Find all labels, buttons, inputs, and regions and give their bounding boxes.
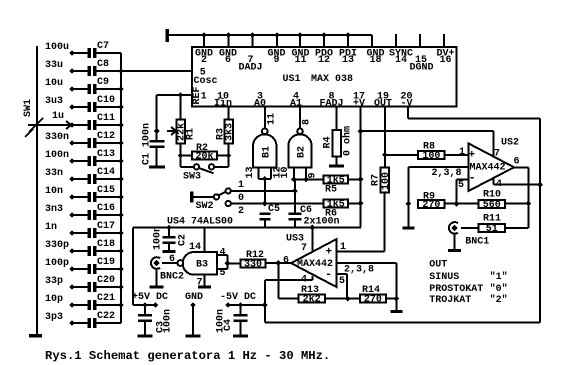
- svg-text:10u: 10u: [45, 78, 63, 89]
- svg-text:33p: 33p: [45, 276, 63, 287]
- svg-text:SW2: SW2: [196, 201, 214, 212]
- svg-text:2,3,8: 2,3,8: [432, 168, 462, 179]
- svg-text:330p: 330p: [45, 240, 69, 251]
- svg-text:3u3: 3u3: [45, 96, 63, 107]
- svg-text:FADJ: FADJ: [319, 99, 343, 110]
- svg-text:16: 16: [439, 55, 451, 66]
- svg-text:1: 1: [201, 92, 207, 103]
- svg-text:2,3,8: 2,3,8: [344, 265, 374, 276]
- svg-text:330n: 330n: [45, 132, 69, 143]
- svg-text:B3: B3: [196, 260, 208, 271]
- svg-text:7: 7: [197, 278, 203, 289]
- svg-text:10: 10: [280, 166, 291, 178]
- svg-text:R12: R12: [246, 250, 264, 261]
- svg-text:3n3: 3n3: [45, 204, 63, 215]
- svg-text:Cosc: Cosc: [194, 76, 218, 87]
- svg-text:51: 51: [486, 224, 498, 235]
- svg-text:B2: B2: [297, 146, 308, 158]
- svg-text:10p: 10p: [45, 294, 63, 305]
- svg-text:"0": "0": [490, 283, 508, 295]
- svg-text:C6: C6: [300, 205, 312, 216]
- svg-text:C21: C21: [97, 293, 115, 304]
- svg-text:5: 5: [220, 268, 226, 279]
- svg-text:6: 6: [283, 256, 289, 267]
- svg-text:US2: US2: [501, 138, 519, 149]
- svg-text:14: 14: [395, 55, 407, 66]
- svg-text:R7: R7: [371, 174, 382, 186]
- svg-text:PROSTOKAT: PROSTOKAT: [429, 284, 483, 295]
- svg-text:BNC2: BNC2: [160, 272, 184, 283]
- svg-text:R13: R13: [301, 285, 319, 296]
- svg-text:9: 9: [273, 55, 279, 66]
- svg-text:13: 13: [342, 55, 354, 66]
- svg-text:C22: C22: [97, 311, 115, 322]
- svg-text:5: 5: [458, 180, 464, 191]
- svg-text:OUT: OUT: [374, 99, 392, 110]
- svg-text:+: +: [326, 247, 333, 259]
- svg-text:B1: B1: [261, 146, 272, 158]
- svg-text:C8: C8: [97, 59, 109, 70]
- svg-text:R6: R6: [325, 209, 337, 220]
- svg-text:270: 270: [364, 295, 382, 306]
- svg-text:C18: C18: [97, 239, 115, 250]
- svg-text:C14: C14: [97, 167, 115, 178]
- svg-text:R11: R11: [483, 214, 501, 225]
- svg-text:7: 7: [494, 149, 500, 160]
- svg-text:C10: C10: [97, 95, 115, 106]
- svg-text:Rys.1 Schemat generatora 1 Hz: Rys.1 Schemat generatora 1 Hz - 30 MHz.: [45, 349, 330, 363]
- svg-text:+5V DC: +5V DC: [132, 292, 168, 303]
- svg-text:100p: 100p: [45, 258, 69, 269]
- svg-text:2: 2: [238, 206, 244, 217]
- svg-text:"1": "1": [490, 271, 508, 283]
- svg-text:9: 9: [308, 172, 319, 178]
- svg-text:7: 7: [301, 243, 307, 254]
- svg-text:1: 1: [238, 180, 244, 191]
- svg-text:C4: C4: [223, 319, 234, 331]
- svg-text:1u: 1u: [52, 111, 64, 122]
- svg-text:C9: C9: [97, 77, 109, 88]
- svg-text:C20: C20: [97, 275, 115, 286]
- svg-text:BNC1: BNC1: [465, 237, 489, 248]
- svg-text:R2: R2: [196, 143, 208, 154]
- svg-text:R14: R14: [362, 285, 380, 296]
- svg-text:0 ohm: 0 ohm: [342, 126, 354, 156]
- svg-text:TROJKAT: TROJKAT: [429, 295, 471, 306]
- svg-text:US1: US1: [283, 74, 301, 85]
- svg-text:MAX 038: MAX 038: [311, 74, 353, 85]
- svg-text:R8: R8: [423, 142, 435, 153]
- svg-text:5: 5: [339, 276, 345, 287]
- svg-text:+: +: [469, 150, 476, 162]
- svg-text:C17: C17: [97, 221, 115, 232]
- svg-text:R4: R4: [323, 136, 334, 148]
- svg-text:1: 1: [459, 147, 465, 158]
- svg-text:100: 100: [381, 172, 392, 190]
- svg-text:R9: R9: [423, 192, 435, 203]
- svg-text:1n: 1n: [45, 222, 57, 233]
- svg-text:3p3: 3p3: [45, 312, 63, 323]
- svg-text:DADJ: DADJ: [238, 62, 262, 73]
- svg-text:C11: C11: [97, 113, 115, 124]
- svg-text:33n: 33n: [45, 168, 63, 179]
- svg-text:C5: C5: [268, 204, 280, 215]
- svg-text:100n: 100n: [163, 309, 174, 333]
- svg-text:100u: 100u: [45, 42, 69, 53]
- svg-text:+V: +V: [353, 99, 365, 110]
- svg-text:4: 4: [220, 248, 226, 259]
- svg-text:C1 100n: C1 100n: [142, 123, 153, 165]
- svg-text:2: 2: [201, 55, 207, 66]
- svg-text:C19: C19: [97, 257, 115, 268]
- svg-text:C16: C16: [97, 203, 115, 214]
- svg-text:R3: R3: [216, 128, 227, 140]
- svg-text:10n: 10n: [45, 186, 63, 197]
- svg-text:-5V DC: -5V DC: [220, 292, 256, 303]
- svg-text:-V: -V: [400, 99, 412, 110]
- svg-text:6: 6: [514, 157, 520, 168]
- svg-text:C7: C7: [97, 41, 109, 52]
- svg-text:0: 0: [238, 193, 244, 204]
- svg-text:R1: R1: [186, 128, 197, 140]
- svg-text:100n: 100n: [45, 150, 69, 161]
- svg-text:US4 74ALS00: US4 74ALS00: [167, 217, 233, 228]
- svg-text:SW1: SW1: [23, 99, 34, 117]
- svg-text:11: 11: [294, 55, 306, 66]
- svg-text:GND: GND: [185, 292, 203, 303]
- svg-text:C15: C15: [97, 185, 115, 196]
- svg-text:OUT: OUT: [429, 259, 447, 270]
- svg-text:18: 18: [369, 55, 381, 66]
- svg-text:11: 11: [266, 113, 277, 125]
- svg-text:6: 6: [225, 55, 231, 66]
- svg-text:R5: R5: [325, 185, 337, 196]
- svg-text:C2: C2: [178, 234, 189, 246]
- svg-text:SINUS: SINUS: [429, 272, 459, 283]
- svg-text:"2": "2": [490, 294, 508, 306]
- svg-text:100n: 100n: [153, 226, 164, 250]
- svg-text:560: 560: [483, 200, 501, 211]
- svg-text:R10: R10: [483, 190, 501, 201]
- svg-text:C13: C13: [97, 149, 115, 160]
- svg-text:-: -: [325, 268, 332, 282]
- svg-text:8: 8: [302, 119, 313, 125]
- svg-text:-: -: [469, 171, 476, 185]
- svg-text:DGND: DGND: [409, 62, 433, 73]
- svg-text:13: 13: [245, 166, 256, 178]
- svg-text:33u: 33u: [45, 60, 63, 71]
- svg-text:12: 12: [318, 55, 330, 66]
- svg-text:SW3: SW3: [183, 172, 201, 183]
- svg-text:C12: C12: [97, 131, 115, 142]
